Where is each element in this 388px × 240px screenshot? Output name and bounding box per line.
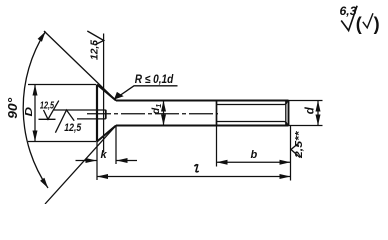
cone angle lower leg extension — [45, 126, 116, 205]
svg-text:12,5: 12,5 — [89, 40, 101, 60]
D extension line bottom — [28, 141, 96, 143]
arc arrowhead top — [38, 32, 46, 42]
svg-text:12,5: 12,5 — [40, 99, 54, 111]
chamfer line at thread end — [285, 101, 288, 104]
slot top edge line extended left — [54, 109, 106, 111]
b extension line (thread start) — [216, 126, 218, 167]
arc arrowhead bottom — [40, 178, 48, 188]
chamfer inner vertical line — [285, 102, 287, 125]
thread minor diameter bottom line — [217, 121, 285, 123]
head face extension line down — [96, 142, 98, 181]
head cone bottom edge — [97, 126, 116, 142]
general roughness 6,3 in corner — [340, 6, 380, 34]
d1 dimension line — [163, 101, 165, 126]
k dimension arrows — [76, 160, 97, 162]
d extension line bottom — [289, 125, 323, 127]
svg-text:12,5: 12,5 — [64, 122, 82, 134]
svg-text:d1: d1 — [150, 104, 163, 114]
slot bottom edge line — [77, 118, 106, 120]
roughness mark 12,5 under slot top surface — [55, 110, 82, 134]
thread end extension line down — [290, 126, 292, 181]
svg-text:d: d — [305, 106, 317, 114]
svg-text:90°: 90° — [5, 97, 20, 119]
svg-text:R ≤ 0,1d: R ≤ 0,1d — [135, 72, 174, 86]
thread start line — [216, 101, 218, 126]
roughness mark 2,5** rotated on thread end extension line — [291, 130, 305, 159]
svg-text:D: D — [24, 107, 35, 117]
label l — [194, 165, 198, 172]
svg-text:): ) — [374, 14, 380, 34]
slot bottom vertical line in head — [105, 110, 107, 119]
leader arrowhead — [114, 92, 124, 100]
slot depth extension line through head — [103, 34, 105, 153]
chamfer line bottom at thread end — [285, 122, 288, 125]
shank top line — [116, 100, 289, 102]
leader R<=0,1d — [114, 86, 178, 100]
screw head face — [96, 85, 98, 142]
l dimension line — [97, 176, 291, 178]
svg-text:b: b — [251, 149, 258, 161]
roughness mark 12,5 on slot bottom surface — [39, 99, 59, 119]
svg-text:(: ( — [356, 14, 362, 34]
D extension line top — [28, 84, 96, 86]
k extension line (head-shank junction) — [115, 126, 117, 165]
90 degree dimension arc — [23, 32, 48, 189]
cone angle upper leg extension — [44, 31, 116, 101]
thread end face — [288, 101, 290, 126]
svg-text:k: k — [101, 149, 108, 161]
b dimension line — [217, 161, 291, 163]
thread minor diameter top line — [217, 104, 285, 106]
svg-text:2,5**: 2,5** — [294, 130, 305, 159]
head cone top edge — [97, 85, 116, 101]
shank bottom line — [116, 125, 289, 127]
dimension line D — [34, 85, 36, 142]
roughness mark 12,5 rotated on slot depth extension line — [87, 31, 104, 60]
centerline (axis) — [87, 113, 218, 115]
d dimension line — [317, 101, 319, 126]
d extension line top — [289, 100, 323, 102]
